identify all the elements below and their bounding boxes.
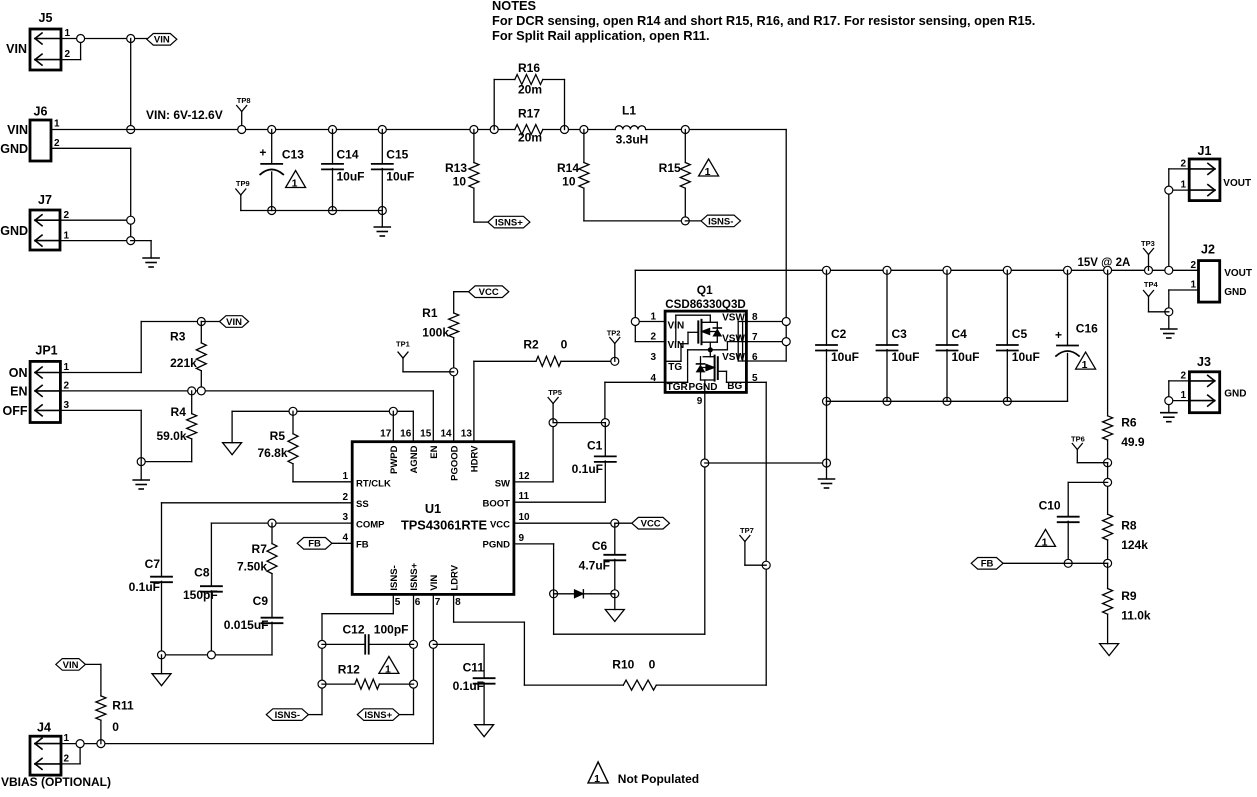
svg-text:C1: C1	[587, 439, 603, 453]
svg-text:49.9: 49.9	[1121, 435, 1145, 449]
svg-text:C5: C5	[1012, 327, 1028, 341]
svg-text:For Split Rail application, op: For Split Rail application, open R11.	[492, 28, 710, 43]
svg-text:GND: GND	[0, 142, 28, 156]
svg-text:6: 6	[415, 597, 421, 608]
svg-text:TP3: TP3	[1141, 239, 1155, 248]
svg-text:C4: C4	[952, 327, 968, 341]
svg-text:TGR: TGR	[667, 382, 689, 393]
svg-text:VIN: VIN	[6, 42, 27, 56]
svg-text:1: 1	[342, 471, 348, 482]
svg-text:4: 4	[342, 532, 348, 543]
svg-text:VCC: VCC	[641, 519, 661, 530]
svg-text:1: 1	[292, 178, 298, 190]
svg-text:10uF: 10uF	[1012, 350, 1040, 364]
svg-text:2: 2	[1180, 158, 1186, 169]
svg-text:20m: 20m	[518, 83, 542, 97]
svg-text:R3: R3	[170, 329, 186, 343]
svg-text:59.0k: 59.0k	[156, 429, 186, 443]
svg-text:HDRV: HDRV	[470, 445, 481, 472]
svg-text:10uF: 10uF	[831, 350, 859, 364]
svg-text:VOUT: VOUT	[1223, 178, 1251, 189]
svg-text:2: 2	[64, 210, 70, 221]
svg-text:GND: GND	[1224, 287, 1246, 298]
svg-text:VIN: VIN	[63, 660, 79, 671]
svg-text:TP7: TP7	[740, 526, 754, 535]
svg-text:J6: J6	[34, 105, 48, 119]
svg-text:EN: EN	[10, 384, 27, 398]
svg-text:1: 1	[1042, 536, 1048, 548]
svg-text:0: 0	[112, 720, 119, 734]
svg-text:J2: J2	[1201, 243, 1215, 257]
svg-text:C11: C11	[463, 661, 485, 675]
svg-text:R12: R12	[338, 662, 360, 676]
svg-text:TP5: TP5	[548, 388, 562, 397]
svg-text:ISNS-: ISNS-	[708, 216, 733, 227]
svg-text:VIN: VIN	[7, 123, 28, 137]
svg-text:FB: FB	[308, 539, 321, 550]
svg-text:13: 13	[461, 429, 473, 440]
svg-text:R4: R4	[171, 405, 187, 419]
svg-text:8: 8	[752, 312, 758, 323]
svg-text:1: 1	[64, 733, 70, 744]
svg-text:14: 14	[440, 429, 452, 440]
svg-text:ISNS+: ISNS+	[364, 710, 392, 721]
svg-text:1: 1	[1190, 280, 1196, 291]
svg-text:10: 10	[562, 174, 576, 188]
svg-text:ISNS-: ISNS-	[275, 710, 300, 721]
svg-text:J3: J3	[1197, 355, 1211, 369]
svg-text:C9: C9	[253, 594, 269, 608]
svg-text:0: 0	[649, 658, 656, 672]
svg-text:C2: C2	[831, 327, 847, 341]
svg-text:PGND: PGND	[483, 540, 511, 551]
svg-text:SS: SS	[356, 499, 369, 510]
svg-text:1: 1	[64, 231, 70, 242]
svg-text:R8: R8	[1121, 518, 1137, 532]
svg-text:PGOOD: PGOOD	[449, 445, 460, 481]
svg-text:10uF: 10uF	[386, 170, 414, 184]
svg-text:1: 1	[650, 312, 656, 323]
svg-text:15V @ 2A: 15V @ 2A	[1078, 257, 1131, 269]
svg-text:R16: R16	[518, 61, 540, 75]
svg-text:5: 5	[395, 597, 401, 608]
svg-text:CSD86330Q3D: CSD86330Q3D	[665, 298, 746, 311]
svg-text:10uF: 10uF	[892, 350, 920, 364]
svg-text:J5: J5	[39, 11, 53, 25]
svg-text:FB: FB	[356, 540, 369, 551]
svg-text:+: +	[259, 146, 266, 160]
svg-text:RT/CLK: RT/CLK	[356, 478, 391, 489]
svg-text:1: 1	[1082, 359, 1088, 371]
svg-text:5: 5	[752, 373, 758, 384]
svg-text:JP1: JP1	[35, 343, 57, 357]
svg-text:2: 2	[650, 332, 656, 343]
svg-text:2: 2	[342, 492, 348, 503]
svg-text:C13: C13	[282, 148, 304, 162]
svg-text:1: 1	[705, 166, 711, 178]
svg-text:1: 1	[1180, 390, 1186, 401]
svg-text:76.8k: 76.8k	[257, 446, 287, 460]
svg-text:16: 16	[400, 429, 412, 440]
svg-text:R10: R10	[612, 658, 634, 672]
svg-text:ISNS-: ISNS-	[389, 565, 400, 590]
svg-text:GND: GND	[0, 224, 28, 238]
svg-text:R2: R2	[523, 338, 539, 352]
svg-text:10: 10	[519, 512, 531, 523]
svg-text:2: 2	[64, 754, 70, 765]
svg-text:10uF: 10uF	[337, 170, 365, 184]
svg-text:AGND: AGND	[409, 445, 420, 473]
svg-text:TP6: TP6	[1071, 435, 1085, 444]
svg-text:1: 1	[594, 773, 600, 785]
svg-text:3: 3	[342, 512, 348, 523]
svg-text:TP2: TP2	[607, 329, 621, 338]
svg-text:0.1uF: 0.1uF	[453, 679, 484, 693]
svg-text:VCC: VCC	[490, 520, 510, 531]
svg-text:R9: R9	[1121, 589, 1137, 603]
svg-text:C6: C6	[592, 539, 608, 553]
svg-text:U1: U1	[425, 501, 441, 516]
svg-text:R15: R15	[659, 161, 681, 175]
svg-text:Q1: Q1	[697, 283, 713, 297]
svg-text:ISNS+: ISNS+	[495, 218, 523, 229]
svg-text:J1: J1	[1198, 144, 1212, 158]
svg-text:11: 11	[519, 491, 530, 502]
svg-text:12: 12	[519, 471, 531, 482]
svg-text:TP1: TP1	[396, 339, 410, 348]
svg-text:7: 7	[435, 597, 441, 608]
svg-text:ON: ON	[9, 366, 28, 380]
svg-text:J4: J4	[37, 721, 51, 735]
svg-text:C15: C15	[386, 148, 408, 162]
svg-text:VIN: VIN	[429, 575, 440, 591]
svg-text:0.1uF: 0.1uF	[129, 580, 160, 594]
svg-text:4.7uF: 4.7uF	[579, 559, 610, 573]
svg-text:3: 3	[64, 400, 70, 411]
svg-text:R11: R11	[112, 699, 134, 713]
svg-text:4: 4	[650, 373, 656, 384]
svg-text:PWPD: PWPD	[389, 445, 400, 474]
svg-text:COMP: COMP	[356, 520, 385, 531]
svg-text:TP8: TP8	[237, 96, 251, 105]
svg-text:LDRV: LDRV	[449, 564, 460, 590]
svg-text:GND: GND	[1224, 388, 1246, 399]
svg-text:OFF: OFF	[3, 404, 28, 418]
svg-text:100k: 100k	[422, 326, 449, 340]
svg-text:C8: C8	[194, 566, 210, 580]
svg-text:9: 9	[697, 396, 703, 407]
svg-text:NOTES: NOTES	[492, 0, 537, 13]
svg-text:221k: 221k	[170, 356, 197, 370]
svg-text:3: 3	[650, 352, 656, 363]
svg-text:R6: R6	[1121, 415, 1137, 429]
svg-text:VOUT: VOUT	[1224, 268, 1252, 279]
svg-text:TG: TG	[668, 362, 682, 373]
svg-text:10: 10	[453, 174, 467, 188]
svg-text:SW: SW	[495, 478, 510, 489]
svg-text:J7: J7	[38, 193, 52, 207]
svg-text:C7: C7	[145, 557, 161, 571]
svg-text:0.1uF: 0.1uF	[572, 462, 603, 476]
svg-text:8: 8	[455, 597, 461, 608]
svg-text:3.3uH: 3.3uH	[616, 132, 649, 146]
svg-text:For DCR sensing, open R14 and: For DCR sensing, open R14 and short R15,…	[492, 13, 1035, 28]
svg-text:6: 6	[752, 352, 758, 363]
svg-text:2: 2	[54, 138, 60, 149]
svg-text:VCC: VCC	[479, 287, 499, 298]
svg-text:11.0k: 11.0k	[1121, 608, 1151, 622]
svg-text:150pF: 150pF	[183, 588, 218, 602]
svg-text:C12: C12	[343, 623, 365, 637]
svg-text:R14: R14	[557, 161, 579, 175]
svg-text:+: +	[1055, 328, 1062, 342]
svg-text:Not Populated: Not Populated	[618, 772, 699, 786]
svg-text:7.50k: 7.50k	[237, 559, 267, 573]
svg-text:VIN: 6V-12.6V: VIN: 6V-12.6V	[146, 108, 223, 122]
svg-text:2: 2	[1190, 260, 1196, 271]
svg-text:ISNS+: ISNS+	[409, 562, 420, 590]
svg-text:9: 9	[519, 533, 525, 544]
svg-text:1: 1	[1180, 180, 1186, 191]
svg-text:R17: R17	[518, 107, 540, 121]
svg-text:R1: R1	[422, 306, 438, 320]
svg-text:0.015uF: 0.015uF	[224, 618, 269, 632]
svg-text:0: 0	[561, 338, 568, 352]
svg-text:FB: FB	[981, 559, 994, 570]
svg-text:R5: R5	[270, 429, 286, 443]
svg-text:TPS43061RTE: TPS43061RTE	[401, 518, 488, 533]
svg-text:R7: R7	[252, 542, 268, 556]
svg-text:C3: C3	[892, 327, 908, 341]
svg-text:124k: 124k	[1121, 538, 1148, 552]
svg-text:R13: R13	[445, 161, 467, 175]
svg-text:L1: L1	[622, 104, 636, 118]
svg-text:PGND: PGND	[689, 382, 718, 393]
svg-text:1: 1	[385, 663, 391, 675]
svg-text:BOOT: BOOT	[483, 499, 511, 510]
svg-text:2: 2	[1180, 370, 1186, 381]
svg-text:1: 1	[64, 362, 70, 373]
svg-text:VIN: VIN	[226, 317, 242, 328]
svg-text:1: 1	[65, 28, 71, 39]
svg-text:100pF: 100pF	[374, 623, 409, 637]
svg-text:EN: EN	[429, 445, 440, 458]
svg-text:C10: C10	[1039, 499, 1061, 513]
svg-text:15: 15	[420, 429, 432, 440]
svg-text:TP9: TP9	[236, 179, 250, 188]
svg-text:TP4: TP4	[1144, 280, 1159, 289]
svg-text:17: 17	[380, 429, 392, 440]
svg-text:C14: C14	[337, 148, 359, 162]
svg-text:VBIAS (OPTIONAL): VBIAS (OPTIONAL)	[1, 775, 111, 789]
svg-text:7: 7	[752, 332, 758, 343]
svg-text:1: 1	[54, 119, 60, 130]
svg-text:20m: 20m	[518, 131, 542, 145]
svg-text:C16: C16	[1076, 321, 1098, 335]
svg-text:10uF: 10uF	[952, 350, 980, 364]
svg-text:2: 2	[65, 49, 71, 60]
svg-text:VIN: VIN	[154, 35, 170, 46]
svg-text:2: 2	[64, 381, 70, 392]
